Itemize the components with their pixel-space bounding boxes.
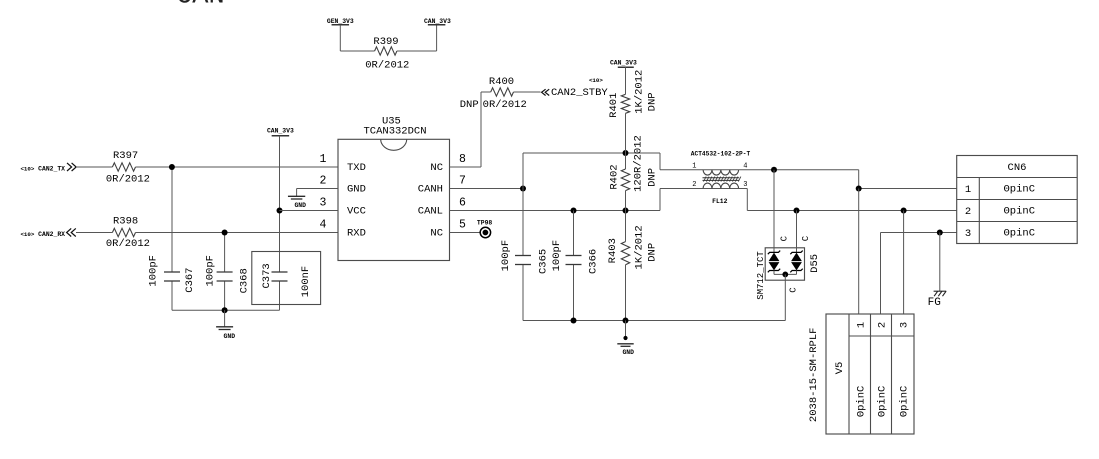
svg-text:<10>: <10> [589,77,603,84]
svg-text:R397: R397 [113,150,138,162]
svg-text:1K/2012: 1K/2012 [633,70,645,114]
svg-text:1: 1 [965,184,971,196]
svg-text:CAN2_STBY: CAN2_STBY [551,87,608,99]
svg-text:CAN2_RX: CAN2_RX [38,231,65,238]
svg-text:TP98: TP98 [477,219,493,226]
svg-text:SM712_TCT: SM712_TCT [756,251,766,300]
svg-text:1: 1 [856,322,868,328]
svg-text:100nF: 100nF [300,266,312,298]
svg-text:DNP: DNP [646,168,658,187]
svg-text:GEN_3V3: GEN_3V3 [327,18,354,25]
svg-text:VCC: VCC [347,205,366,217]
svg-text:CANL: CANL [418,205,443,217]
svg-text:ΘpinC: ΘpinC [898,386,910,418]
svg-text:120R/2012: 120R/2012 [632,135,644,192]
svg-text:CAN2_TX: CAN2_TX [38,166,65,173]
svg-text:GND: GND [347,183,366,195]
svg-text:RXD: RXD [347,227,366,239]
svg-text:CAN_3V3: CAN_3V3 [424,18,451,25]
svg-text:CAN: CAN [176,0,225,12]
svg-text:NC: NC [430,227,443,239]
svg-text:4: 4 [320,218,327,231]
svg-text:3: 3 [743,181,747,189]
svg-text:1K/2012: 1K/2012 [634,225,646,269]
svg-text:CAN_3V3: CAN_3V3 [267,128,294,135]
svg-text:8: 8 [459,153,466,166]
svg-text:R402: R402 [608,164,620,189]
svg-text:CANH: CANH [418,183,443,195]
svg-text:100pF: 100pF [500,240,512,272]
svg-text:<10>: <10> [20,231,34,238]
svg-text:FG: FG [928,297,941,309]
svg-text:ΘpinC: ΘpinC [1004,206,1036,218]
svg-text:R401: R401 [608,93,620,118]
svg-text:2: 2 [877,322,889,328]
svg-text:<10>: <10> [20,165,34,172]
svg-text:R399: R399 [373,36,398,48]
svg-text:3: 3 [965,228,971,240]
svg-text:R403: R403 [607,238,619,263]
svg-text:2: 2 [965,206,971,218]
svg-text:C365: C365 [538,249,550,274]
svg-text:0R/2012: 0R/2012 [106,173,150,185]
svg-text:2038-15-SM-RPLF: 2038-15-SM-RPLF [808,328,820,423]
svg-text:C373: C373 [261,263,273,288]
svg-text:C: C [801,235,811,241]
svg-text:GND: GND [622,349,634,356]
svg-text:3: 3 [898,322,910,328]
svg-text:GND: GND [294,202,306,209]
svg-text:NC: NC [430,162,443,174]
svg-text:ΘpinC: ΘpinC [856,386,868,418]
svg-text:TXD: TXD [347,162,366,174]
svg-text:5: 5 [459,218,466,231]
svg-text:C366: C366 [587,249,599,274]
svg-text:100pF: 100pF [551,240,563,272]
svg-text:7: 7 [459,174,466,187]
svg-text:100pF: 100pF [204,255,216,287]
svg-text:DNP: DNP [647,92,659,111]
svg-text:R400: R400 [489,76,514,88]
svg-text:0R/2012: 0R/2012 [365,59,409,71]
svg-text:100pF: 100pF [147,255,159,287]
svg-text:C368: C368 [238,268,250,293]
svg-text:ACT4532-102-2P-T: ACT4532-102-2P-T [691,151,751,158]
svg-text:3: 3 [320,196,327,209]
svg-text:CN6: CN6 [1008,162,1027,174]
svg-text:DNP: DNP [460,99,479,111]
svg-text:GND: GND [224,333,236,340]
svg-text:1: 1 [692,163,696,171]
svg-text:FL12: FL12 [712,198,728,205]
svg-text:V5: V5 [834,362,846,375]
svg-text:TCAN332DCN: TCAN332DCN [363,126,426,138]
svg-text:ΘpinC: ΘpinC [1004,184,1036,196]
svg-text:C367: C367 [184,267,196,292]
svg-text:C: C [779,235,789,241]
svg-text:CAN_3V3: CAN_3V3 [610,60,637,67]
svg-text:2: 2 [692,181,696,189]
svg-text:ΘpinC: ΘpinC [877,386,889,418]
svg-text:ΘpinC: ΘpinC [1004,228,1036,240]
svg-text:1: 1 [320,153,327,166]
svg-text:D55: D55 [809,254,821,273]
svg-text:DNP: DNP [647,243,659,262]
svg-text:2: 2 [320,174,327,187]
svg-text:6: 6 [459,196,466,209]
svg-text:0R/2012: 0R/2012 [483,99,527,111]
svg-text:0R/2012: 0R/2012 [106,238,150,250]
svg-text:R398: R398 [113,216,138,228]
svg-text:C: C [789,287,799,293]
